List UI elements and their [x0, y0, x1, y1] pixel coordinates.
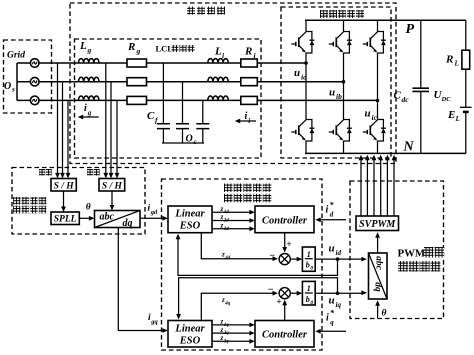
inductor Lg c	[79, 96, 99, 100]
capacitor Cf c	[202, 100, 204, 143]
svg-text:g: g	[87, 46, 92, 55]
svg-text:i: i	[248, 117, 250, 125]
block 1/b0 d	[302, 247, 315, 271]
svg-text:id: id	[336, 249, 342, 257]
svg-text:s: s	[11, 86, 15, 94]
wire phase a left	[17, 62, 306, 64]
AC source b	[30, 77, 39, 86]
svg-text:c: c	[194, 138, 197, 146]
resistor Rg a	[127, 59, 147, 67]
LCL filter dashed box	[75, 39, 262, 158]
wire voltage tap a	[57, 63, 59, 177]
label: voltage (dian ya)	[39, 169, 52, 176]
arrow ii	[240, 120, 256, 122]
svg-text:Controller: Controller	[262, 216, 308, 227]
wire star point rail	[162, 142, 204, 144]
capacitor Cdc	[420, 20, 422, 153]
transistor Q6	[363, 120, 386, 142]
svg-text:C: C	[147, 110, 155, 122]
svg-text:S / H: S / H	[54, 181, 75, 191]
svg-text:3d: 3d	[223, 227, 230, 232]
resistor Rg c	[127, 96, 147, 104]
svg-text:Controller: Controller	[262, 330, 308, 341]
inductor Li c	[208, 96, 228, 100]
svg-text:gd: gd	[150, 209, 158, 216]
svg-text:N: N	[403, 140, 415, 155]
wire phase c left	[17, 99, 378, 101]
resistor Ri c	[241, 96, 257, 104]
wire voltage tap b	[62, 82, 64, 177]
svg-text:u: u	[294, 67, 300, 79]
wire z2d	[212, 220, 254, 222]
svg-text:dq: dq	[373, 282, 383, 292]
arrow ig	[83, 116, 99, 118]
resistor Ri b	[241, 78, 257, 86]
AC source c	[30, 96, 39, 105]
svg-text:ic: ic	[372, 113, 378, 122]
wire controller q output	[284, 301, 286, 321]
wire z3d	[212, 228, 254, 230]
wire current tap c	[116, 100, 118, 177]
label: linear ADRC module title (2 lines)	[224, 184, 271, 193]
block Linear ESO q	[168, 321, 212, 348]
wire igq	[118, 228, 165, 331]
capacitor Cf a	[162, 63, 164, 143]
wire id* reference	[320, 219, 346, 221]
wire uid feedback to ESO d	[178, 235, 338, 275]
label: PWM signal output module title (2 lines)	[398, 247, 445, 260]
resistor Ri a	[241, 59, 257, 67]
svg-text:L: L	[214, 46, 222, 58]
svg-text:0: 0	[310, 300, 313, 306]
wire z1q	[212, 324, 254, 326]
block abc/dq transform	[95, 211, 141, 228]
svg-text:L: L	[455, 115, 460, 123]
svg-text:1: 1	[307, 250, 311, 259]
svg-text:SPLL: SPLL	[54, 215, 77, 225]
inductor Lg b	[79, 77, 99, 81]
svg-text:+: +	[286, 239, 291, 249]
wire current tap a	[105, 63, 107, 177]
node uiq junction	[336, 291, 340, 295]
transistor Q4	[329, 120, 352, 142]
wire N rail	[305, 152, 466, 154]
svg-text:DC: DC	[441, 96, 452, 103]
wire z2q	[212, 332, 254, 334]
svg-text:LCL: LCL	[156, 44, 174, 54]
block SVPWM	[356, 216, 399, 231]
wire uid	[315, 258, 365, 260]
svg-text:R: R	[244, 46, 252, 58]
block Controller q	[255, 321, 314, 348]
svg-text:i: i	[326, 205, 329, 216]
svg-text:O: O	[4, 81, 11, 92]
summing junction q	[279, 288, 290, 299]
wire current tap b	[110, 82, 112, 177]
svg-text:abc: abc	[100, 212, 115, 223]
svg-text:b: b	[306, 261, 310, 270]
ADRC controller module dashed box	[162, 179, 323, 350]
svg-text:g: g	[87, 109, 92, 117]
signal detection module dashed box	[12, 168, 145, 235]
svg-text:1: 1	[307, 284, 311, 293]
svg-text:u: u	[365, 108, 371, 120]
svg-text:u: u	[329, 295, 335, 307]
svg-text:E: E	[447, 109, 455, 121]
svg-text:Grid: Grid	[7, 51, 25, 61]
inductor Lg a	[79, 59, 99, 63]
wire load branch	[465, 20, 467, 153]
node uid junction	[336, 257, 340, 261]
svg-text:b: b	[306, 295, 310, 304]
resistor Rg b	[127, 78, 147, 86]
svg-text:−: −	[267, 285, 273, 296]
svg-text:iq: iq	[336, 301, 342, 309]
transistor Q5	[363, 32, 386, 54]
node phase c junction	[376, 99, 380, 103]
svg-text:PWM: PWM	[398, 248, 426, 260]
wire uiq feedback to ESO q	[179, 278, 338, 319]
wire leg b	[343, 20, 345, 153]
svg-text:θ: θ	[382, 309, 387, 319]
wire leg c	[377, 20, 379, 153]
svg-text:i: i	[245, 111, 248, 122]
wire gate signals	[359, 155, 397, 216]
Grid source module dashed box	[4, 40, 52, 113]
svg-text:u: u	[329, 243, 335, 255]
svg-text:R: R	[445, 54, 453, 66]
wire phase b left	[17, 81, 344, 83]
svg-text:dc: dc	[402, 95, 410, 104]
resistor RL	[462, 50, 470, 69]
wire voltage tap c	[67, 100, 69, 177]
block Controller d	[255, 206, 314, 233]
block Linear ESO d	[168, 206, 212, 233]
full-bridge inverter dashed box	[281, 7, 391, 158]
svg-text:2d: 2d	[223, 219, 230, 224]
svg-text:ib: ib	[336, 92, 342, 101]
wire controller d output	[284, 233, 286, 252]
svg-text:ia: ia	[301, 73, 307, 82]
svg-text:dq: dq	[123, 218, 133, 229]
svg-text:−: −	[269, 251, 275, 262]
wire z4q	[201, 293, 276, 320]
label: full-bridge inverter title	[320, 10, 364, 18]
transistor Q1	[291, 32, 314, 54]
wire sum q to 1/b0	[290, 292, 301, 294]
svg-text:3q: 3q	[223, 339, 230, 344]
wire P rail	[305, 19, 466, 21]
svg-text:abc: abc	[374, 256, 384, 271]
inductor Li a	[208, 59, 228, 63]
svg-text:L: L	[454, 60, 459, 68]
transistor Q2	[291, 120, 314, 142]
wire leg a	[305, 20, 307, 153]
block S/H voltage	[51, 179, 76, 192]
wire z1d	[212, 211, 254, 213]
transistor Q3	[329, 32, 352, 54]
svg-text:gq: gq	[150, 319, 158, 326]
block SPLL	[51, 212, 79, 225]
wire uiq	[315, 292, 365, 294]
svg-text:θ: θ	[86, 203, 91, 213]
svg-text:4q: 4q	[224, 301, 231, 306]
svg-text:1d: 1d	[224, 210, 230, 215]
svg-text:S / H: S / H	[102, 181, 123, 191]
svg-text:O: O	[186, 134, 193, 145]
node phase b junction	[342, 80, 346, 84]
svg-text:C: C	[394, 90, 402, 102]
svg-text:i: i	[84, 103, 87, 114]
wire iq* reference	[320, 330, 346, 332]
svg-text:2q: 2q	[223, 331, 230, 336]
wire z4d	[201, 233, 276, 259]
node phase a junction	[304, 61, 308, 65]
wire igd	[140, 217, 167, 219]
block dq to abc transform	[369, 253, 388, 299]
wire theta input	[377, 302, 379, 319]
svg-text:L: L	[79, 40, 87, 52]
wire S/H current to abc-dq	[111, 191, 113, 209]
svg-text:d: d	[330, 211, 334, 219]
label: inverter module title	[187, 7, 225, 15]
svg-text:g: g	[136, 47, 141, 56]
svg-text:1q: 1q	[224, 323, 230, 328]
svg-text:0: 0	[310, 266, 313, 272]
svg-text:4d: 4d	[224, 256, 231, 261]
label: LCL filter title	[156, 44, 195, 54]
PWM output module dashed box	[350, 181, 444, 319]
capacitor Cf b	[182, 82, 184, 143]
inductor Li b	[208, 77, 228, 81]
wire SPLL theta to abc-dq	[79, 217, 93, 219]
wire z3q	[212, 340, 254, 342]
svg-text:SVPWM: SVPWM	[359, 219, 396, 230]
AC source a	[30, 59, 39, 68]
svg-text:ESO: ESO	[179, 336, 201, 347]
svg-text:R: R	[127, 41, 135, 53]
wire dq-abc to SVPWM	[377, 234, 379, 254]
inverter module (ni bian mo kuai) dashed box	[70, 3, 396, 164]
svg-text:u: u	[329, 87, 335, 99]
svg-text:P: P	[406, 22, 415, 37]
svg-text:Linear: Linear	[174, 209, 205, 220]
svg-text:q: q	[330, 319, 334, 327]
svg-text:ESO: ESO	[179, 221, 201, 232]
wire sum d to 1/b0	[290, 258, 301, 260]
node bus of grid	[16, 63, 18, 100]
block S/H current	[99, 179, 125, 192]
summing junction d	[279, 254, 290, 265]
block 1/b0 q	[302, 281, 315, 305]
svg-text:i: i	[326, 313, 329, 324]
label: signal detection module title (2 lines)	[13, 197, 46, 205]
battery EL	[460, 106, 472, 108]
wire S/H to SPLL	[63, 191, 65, 211]
svg-text:Linear: Linear	[174, 324, 205, 335]
label: current (dian liu)	[87, 169, 100, 176]
